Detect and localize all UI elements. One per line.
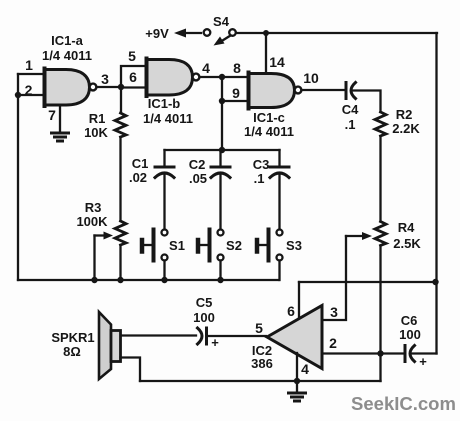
- wire left feedback vertical: [17, 74, 19, 280]
- svg-text:1/4 4011: 1/4 4011: [244, 124, 294, 139]
- capacitor bus wire: [165, 149, 280, 151]
- svg-text:386: 386: [251, 356, 273, 371]
- resistor R4 zigzag: [375, 222, 386, 246]
- wire pin 1: [18, 73, 44, 75]
- wire pin 14 drop: [265, 33, 267, 72]
- svg-text:1: 1: [25, 57, 33, 73]
- svg-text:C3: C3: [253, 157, 270, 172]
- junction dot S2 on bus: [217, 277, 223, 283]
- capacitor C3 plates: [270, 166, 289, 169]
- svg-text:8: 8: [233, 60, 241, 76]
- svg-text:+: +: [419, 354, 427, 369]
- switch S1 bottom contact: [162, 255, 168, 261]
- wire branch down to capacitor bus: [221, 101, 223, 150]
- wire C2 to S2: [219, 174, 221, 229]
- gate IC1-c body: [249, 74, 295, 108]
- capacitor C4 plates: [345, 83, 348, 99]
- wire S3 to bus corner: [278, 261, 280, 281]
- wire to pin 6: [121, 86, 146, 88]
- junction dot pin 8 branch: [219, 74, 225, 80]
- svg-text:S1: S1: [169, 238, 185, 253]
- svg-text:10K: 10K: [84, 125, 108, 140]
- wire ground line speaker to R4: [140, 380, 381, 382]
- junction dot capacitor bus: [219, 147, 225, 153]
- svg-text:100K: 100K: [76, 214, 108, 229]
- switch S2 button cap: [196, 240, 201, 252]
- resistor R3 wiper arm: [95, 234, 106, 236]
- svg-text:SeekIC.com: SeekIC.com: [351, 393, 456, 414]
- svg-text:C4: C4: [342, 102, 359, 117]
- wire junction to R1: [120, 87, 122, 113]
- wire speaker top to C5: [121, 334, 196, 336]
- wire bus to C3: [278, 150, 280, 167]
- switch S4 right terminal: [229, 29, 236, 36]
- svg-text:R3: R3: [85, 200, 102, 215]
- gate IC1-a body: [45, 70, 90, 106]
- switch S2 top contact: [218, 230, 224, 236]
- resistor R3 zigzag: [115, 221, 126, 245]
- svg-text:1/4 4011: 1/4 4011: [143, 111, 193, 126]
- svg-text:C6: C6: [401, 313, 418, 328]
- wire to pin 5 riser: [121, 66, 146, 87]
- switch S3 plunger bar: [267, 230, 271, 261]
- switch S2 plunger bar: [208, 230, 212, 261]
- svg-text:IC1-b: IC1-b: [148, 96, 181, 111]
- wire speaker bottom terminal: [121, 358, 141, 382]
- switch S4 left terminal: [204, 29, 211, 36]
- svg-text:.05: .05: [189, 171, 207, 186]
- wire +9V arrow lead: [185, 32, 201, 34]
- capacitor C6 plates: [404, 346, 407, 362]
- op-amp IC2 body: [267, 306, 322, 369]
- wire pin 4 drop: [296, 353, 298, 381]
- svg-text:IC1-c: IC1-c: [253, 110, 285, 125]
- switch S4 blade arrow: [223, 36, 231, 41]
- svg-text:C5: C5: [196, 295, 213, 310]
- svg-text:6: 6: [287, 303, 295, 319]
- gate IC1-a left edge: [43, 69, 47, 107]
- switch S1 stem: [145, 244, 152, 246]
- switch S1 plunger bar: [152, 230, 156, 261]
- svg-text:S4: S4: [213, 14, 230, 29]
- wire bottom feedback bus: [18, 279, 279, 281]
- speaker SPKR1 cone: [99, 312, 111, 379]
- switch S1 top contact: [162, 230, 168, 236]
- svg-text:2.5K: 2.5K: [393, 236, 421, 251]
- wire C4 to R2 corner: [353, 91, 381, 113]
- wire pin 2: [18, 94, 44, 96]
- svg-text:100: 100: [193, 310, 215, 325]
- switch S3 stem: [260, 244, 267, 246]
- svg-text:+: +: [211, 335, 219, 350]
- svg-text:1/4 4011: 1/4 4011: [42, 48, 92, 63]
- svg-text:5: 5: [255, 320, 263, 336]
- wire right rail vertical: [435, 33, 437, 354]
- svg-text:IC1-a: IC1-a: [51, 33, 84, 48]
- switch S3 bottom contact: [277, 255, 283, 261]
- wire R3 wiper to bus: [93, 236, 95, 281]
- gate IC1-b left edge: [145, 59, 149, 97]
- junction dot S1 on bus: [161, 277, 167, 283]
- switch S2 bottom contact: [218, 255, 224, 261]
- junction dot pin14 branch: [263, 30, 269, 36]
- svg-text:C2: C2: [189, 157, 206, 172]
- wire C1 to S1: [163, 174, 165, 229]
- wire bus to C2: [219, 150, 221, 167]
- junction dot V+ rail to amp supply: [432, 279, 438, 285]
- junction dot pins 1-2 tie: [15, 92, 21, 98]
- svg-text:100: 100: [399, 327, 421, 342]
- wire C5 to amp pin 5: [208, 335, 266, 337]
- svg-text:SPKR1: SPKR1: [51, 330, 94, 345]
- wire IC1-c output to C4: [302, 89, 346, 91]
- gate IC1-b output bubble: [193, 74, 200, 81]
- resistor R2 zigzag: [375, 112, 386, 136]
- junction dot R4 bottom on pin 2 line: [377, 350, 383, 356]
- wire R3 bottom to bus: [119, 245, 121, 280]
- gate IC1-b body: [147, 60, 193, 96]
- svg-text:+9V: +9V: [145, 26, 169, 41]
- svg-text:2: 2: [329, 335, 337, 351]
- junction dot output 3: [118, 84, 124, 90]
- switch S1 button cap: [140, 240, 145, 252]
- wire pin 9: [222, 100, 249, 102]
- svg-text:.1: .1: [345, 117, 356, 132]
- switch S3 button cap: [255, 240, 260, 252]
- svg-text:9: 9: [232, 85, 240, 101]
- svg-text:.1: .1: [254, 171, 265, 186]
- junction dot wiper on bus: [91, 277, 97, 283]
- wire amp V+ line to rail: [299, 281, 436, 283]
- wire S4 to top-right rail: [236, 32, 437, 34]
- svg-text:7: 7: [48, 107, 56, 123]
- resistor R3 wiper arrowhead: [104, 232, 114, 240]
- wire C3 to S3: [278, 174, 280, 229]
- wire branch down to pin 9: [221, 77, 223, 101]
- wire pin 7: [59, 105, 61, 132]
- ground IC1-a pin7: [52, 133, 69, 141]
- svg-text:3: 3: [101, 71, 109, 87]
- svg-text:R4: R4: [398, 220, 415, 235]
- svg-text:10: 10: [303, 70, 319, 86]
- switch S2 stem: [201, 244, 208, 246]
- svg-text:3: 3: [330, 304, 338, 320]
- svg-text:S3: S3: [286, 238, 302, 253]
- node +9V arrowhead: [174, 29, 186, 38]
- svg-text:S2: S2: [226, 238, 242, 253]
- gate IC1-c left edge: [247, 73, 251, 109]
- svg-text:4: 4: [202, 60, 210, 76]
- wire bus to C1: [163, 150, 165, 167]
- wire IC1-a output to junction: [97, 86, 122, 88]
- speaker SPKR1 driver: [111, 331, 121, 362]
- svg-text:4: 4: [301, 361, 309, 377]
- capacitor C5 plates: [198, 328, 203, 344]
- svg-text:5: 5: [128, 48, 136, 64]
- svg-text:R2: R2: [396, 107, 413, 122]
- gate IC1-c output bubble: [295, 87, 302, 94]
- wire C6 to right rail: [412, 352, 437, 354]
- junction dot R3 bottom on bus: [117, 277, 123, 283]
- switch S3 top contact: [277, 230, 283, 236]
- svg-text:R1: R1: [89, 111, 106, 126]
- wire pin 6 supply riser: [298, 282, 300, 318]
- resistor R1 zigzag: [115, 113, 126, 137]
- junction dot ground node: [294, 378, 300, 384]
- svg-text:14: 14: [269, 54, 285, 70]
- svg-text:2.2K: 2.2K: [392, 121, 420, 136]
- wire pin 2 to C6: [322, 352, 404, 354]
- resistor R4 wiper arrowhead: [362, 232, 372, 240]
- capacitor C1 plates: [155, 166, 174, 169]
- gate IC1-a output bubble: [90, 84, 97, 91]
- wire S1 to bus: [163, 261, 165, 281]
- capacitor C2 plates: [211, 166, 230, 169]
- resistor R4 wiper arm: [346, 235, 363, 237]
- svg-text:C1: C1: [132, 156, 149, 171]
- svg-text:8Ω: 8Ω: [63, 344, 81, 359]
- svg-text:.02: .02: [129, 170, 147, 185]
- wire S2 to bus: [219, 261, 221, 281]
- wire R1 to R3: [119, 137, 121, 221]
- wire R4 wiper down to pin 3: [322, 236, 346, 320]
- wire R4 bottom to ground line: [379, 246, 381, 382]
- wire R2 to R4: [379, 136, 381, 222]
- svg-text:6: 6: [129, 69, 137, 85]
- junction dot pin 9 branch: [219, 98, 225, 104]
- ground IC2 pin4: [296, 381, 298, 392]
- wire IC1-b output to IC1-c pin 8: [200, 76, 249, 78]
